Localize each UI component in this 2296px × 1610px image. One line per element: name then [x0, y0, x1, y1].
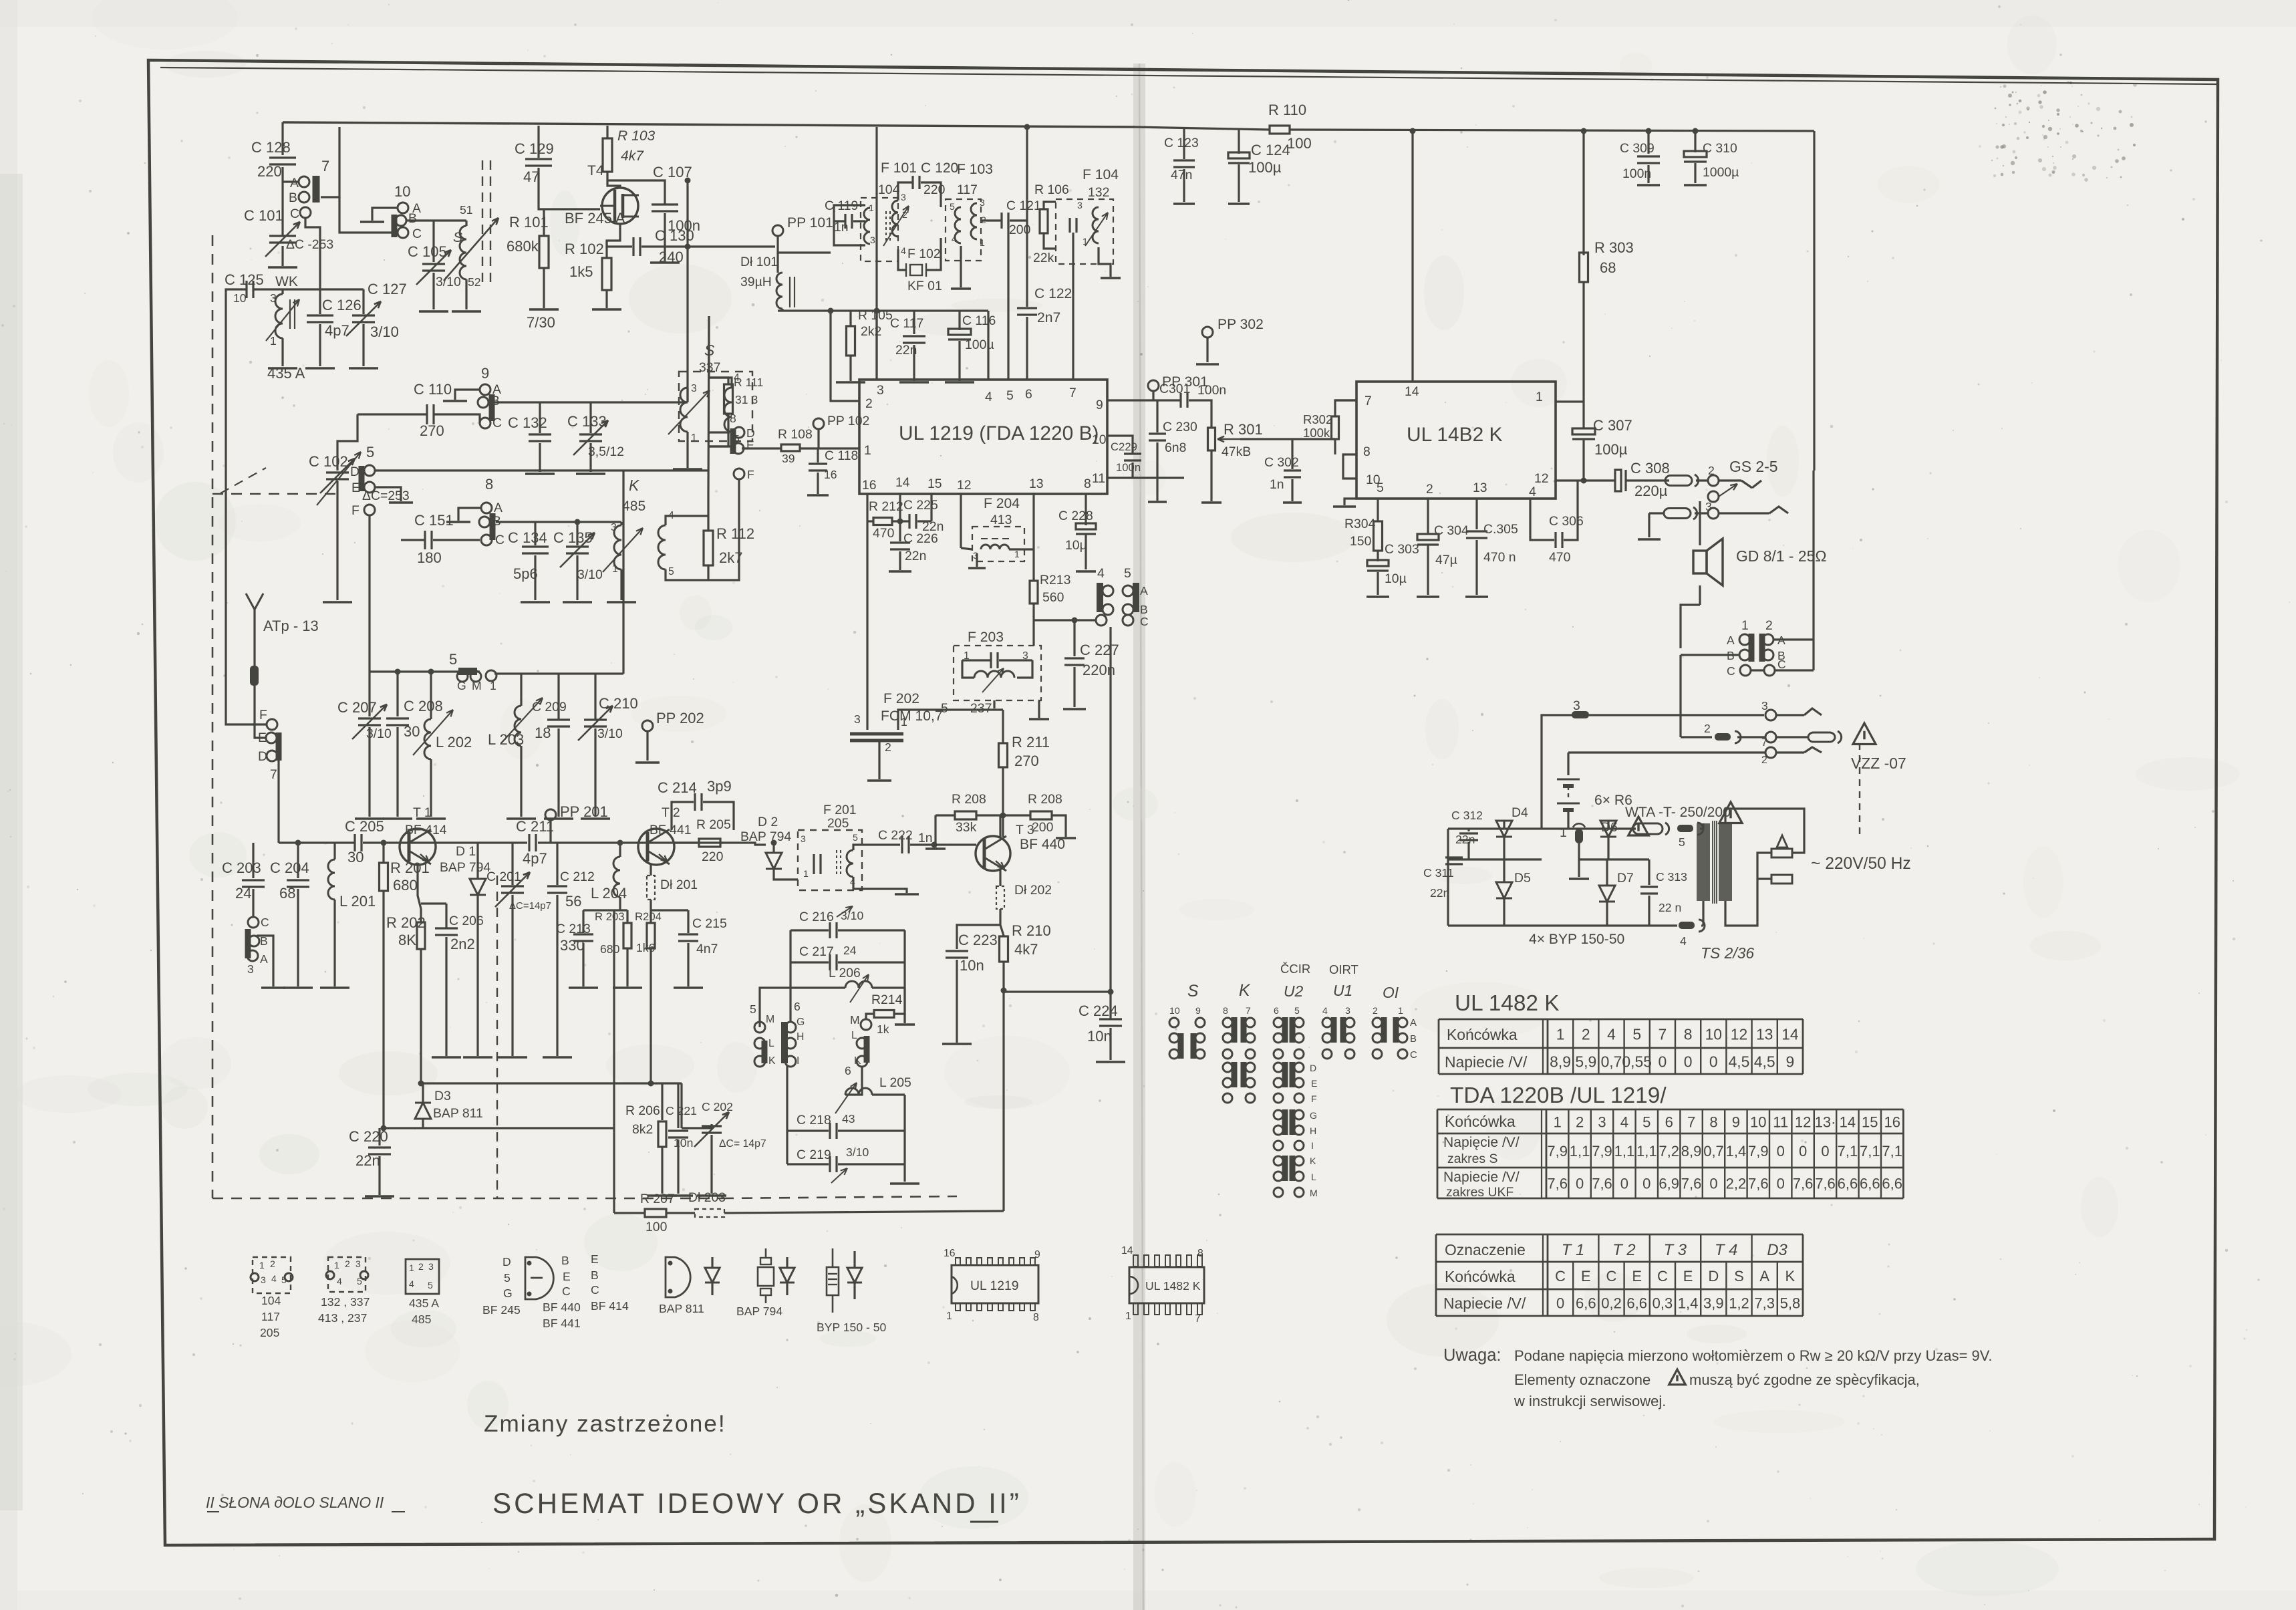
inductor inside F201	[847, 850, 853, 877]
capacitor C135 variable	[576, 522, 578, 545]
wire contact D to R112 node long	[375, 469, 709, 471]
svg-text:5: 5	[366, 444, 374, 460]
svg-text:5: 5	[853, 832, 858, 843]
svg-text:1: 1	[1560, 825, 1567, 840]
svg-text:3: 3	[801, 833, 806, 844]
svg-text:1: 1	[270, 334, 277, 348]
svg-text:3: 3	[870, 235, 875, 245]
capacitor C128	[269, 156, 296, 158]
svg-text:C 303: C 303	[1385, 542, 1419, 557]
svg-text:BYP 150 - 50: BYP 150 - 50	[817, 1321, 887, 1334]
svg-text:F: F	[351, 503, 360, 518]
ground stub left of UL1482K	[1344, 499, 1356, 505]
resistor R201	[382, 843, 384, 862]
wire cluster 9 B to C132 C133 row	[494, 401, 540, 403]
wire pin15 riser	[930, 494, 932, 521]
capacitor C132	[539, 402, 541, 433]
svg-text:4× BYP 150-50: 4× BYP 150-50	[1529, 932, 1624, 947]
wire pin2 to left	[831, 311, 859, 401]
svg-text:ΔC=14p7: ΔC=14p7	[509, 900, 551, 912]
svg-text:ΔC -253: ΔC -253	[286, 237, 333, 252]
test point PP302	[1202, 327, 1213, 338]
svg-text:BAP 794: BAP 794	[736, 1305, 782, 1318]
svg-text:1: 1	[869, 203, 874, 213]
svg-text:2: 2	[885, 741, 891, 754]
wire contact C down to C126 node	[305, 218, 320, 289]
svg-text:1,1: 1,1	[1570, 1143, 1590, 1160]
resistor R204	[647, 923, 655, 948]
svg-text:680: 680	[393, 877, 418, 894]
svg-text:1: 1	[946, 1311, 952, 1322]
row lower contact	[1568, 751, 1765, 753]
wire volume cluster down	[1109, 627, 1111, 835]
svg-text:22n: 22n	[1455, 833, 1475, 846]
svg-text:13: 13	[1029, 477, 1044, 491]
wire S337 secondary link down	[708, 316, 710, 378]
capacitor C107	[652, 203, 678, 205]
capacitor C121	[1000, 213, 1002, 229]
svg-text:2: 2	[1761, 755, 1767, 766]
svg-text:8: 8	[730, 412, 736, 425]
svg-text:M: M	[472, 679, 482, 692]
speaker GD8	[1693, 551, 1707, 573]
svg-text:8: 8	[1363, 444, 1371, 459]
wire pin6 riser with C122	[1026, 127, 1028, 307]
svg-text:C 208: C 208	[404, 698, 443, 714]
svg-text:C: C	[1410, 1049, 1417, 1061]
svg-text:5: 5	[1632, 1025, 1641, 1043]
svg-text:C 203: C 203	[222, 859, 261, 876]
svg-text:3: 3	[980, 197, 985, 208]
svg-text:T 3: T 3	[1664, 1241, 1687, 1259]
capacitor C105 variable	[432, 221, 434, 262]
filter F203 dashed box	[954, 646, 1041, 700]
svg-text:C 310: C 310	[1703, 141, 1737, 156]
test point PP201	[545, 809, 556, 820]
svg-text:1,1: 1,1	[1614, 1143, 1635, 1160]
svg-text:R 211: R 211	[1012, 734, 1050, 751]
svg-text:D: D	[1708, 1268, 1719, 1285]
svg-text:TDA 1220В /UL 1219/: TDA 1220В /UL 1219/	[1450, 1083, 1667, 1108]
svg-text:7,6: 7,6	[1793, 1176, 1814, 1192]
svg-text:C 309: C 309	[1620, 141, 1655, 156]
capacitor C215	[687, 910, 689, 933]
svg-text:9: 9	[1096, 398, 1103, 412]
svg-text:PP 202: PP 202	[656, 710, 704, 726]
svg-text:M: M	[1310, 1188, 1318, 1198]
svg-text:B: B	[591, 1268, 599, 1282]
svg-text:22n: 22n	[1430, 886, 1449, 900]
svg-text:5: 5	[428, 1280, 433, 1291]
svg-text:OIRT: OIRT	[1329, 962, 1358, 976]
svg-text:14: 14	[1781, 1025, 1799, 1043]
svg-text:117: 117	[957, 182, 978, 197]
mains plug prongs	[1777, 835, 1787, 847]
svg-text:220µ: 220µ	[1634, 483, 1668, 499]
wire C110 line	[357, 413, 426, 415]
svg-text:5: 5	[1679, 835, 1685, 849]
svg-text:C 227: C 227	[1080, 642, 1119, 658]
wire right bus corner down	[1813, 131, 1815, 471]
capacitor C203	[252, 843, 254, 878]
wire contact F down to VHF row	[368, 515, 370, 672]
test point PP301	[1148, 380, 1159, 391]
wire pin14 riser	[1411, 131, 1413, 382]
svg-text:3/10: 3/10	[846, 1146, 869, 1159]
svg-text:A: A	[290, 176, 299, 190]
svg-text:100µ: 100µ	[1594, 441, 1628, 458]
svg-text:PP 102: PP 102	[827, 414, 869, 428]
VHF input row	[370, 670, 460, 672]
svg-text:100: 100	[1287, 135, 1312, 152]
svg-text:C 210: C 210	[599, 695, 638, 712]
svg-text:8,9: 8,9	[1681, 1143, 1702, 1160]
resistor R214	[895, 988, 905, 1014]
svg-text:150: 150	[1350, 534, 1372, 549]
svg-text:A: A	[1140, 584, 1148, 597]
svg-text:C 217: C 217	[799, 944, 834, 959]
svg-text:2: 2	[1582, 1025, 1590, 1043]
capacitor C118	[817, 448, 819, 462]
svg-text:Końcówka: Końcówka	[1447, 1026, 1518, 1043]
svg-text:2: 2	[270, 1258, 275, 1269]
svg-text:5: 5	[281, 1274, 287, 1285]
svg-text:3: 3	[854, 712, 861, 726]
svg-text:4p7: 4p7	[325, 322, 349, 339]
wire pin8 riser C228	[1085, 494, 1087, 525]
svg-text:4: 4	[271, 1273, 277, 1284]
svg-text:R 208: R 208	[952, 792, 986, 807]
filter F101 dashed box	[861, 198, 898, 261]
svg-text:237: 237	[970, 701, 992, 716]
svg-text:R 112: R 112	[716, 525, 754, 542]
wire from B cluster down to switch row	[1679, 655, 1681, 737]
svg-text:F 104: F 104	[1083, 167, 1119, 182]
capacitor C308 electrolytic	[1615, 470, 1621, 491]
svg-text:0: 0	[1620, 1176, 1628, 1192]
svg-text:16: 16	[1884, 1114, 1900, 1131]
transformer TS 2/36 windings	[1697, 823, 1710, 901]
svg-text:C 312: C 312	[1451, 809, 1483, 822]
wire C128 chain vertical	[281, 122, 283, 155]
svg-text:S: S	[453, 230, 462, 245]
svg-text:0: 0	[1821, 1143, 1829, 1160]
svg-text:D7: D7	[1617, 871, 1634, 886]
svg-text:6: 6	[794, 1000, 801, 1013]
svg-text:E: E	[1311, 1078, 1317, 1089]
svg-text:12: 12	[957, 478, 972, 493]
svg-text:C 126: C 126	[322, 297, 362, 313]
svg-text:C 135: C 135	[553, 529, 593, 546]
svg-text:A: A	[260, 952, 268, 966]
svg-text:T 2: T 2	[1612, 1241, 1635, 1259]
svg-text:Dł 202: Dł 202	[1014, 883, 1052, 898]
svg-text:7: 7	[321, 158, 329, 174]
svg-text:C 122: C 122	[1034, 286, 1072, 301]
wire WK line	[235, 288, 247, 290]
svg-text:2: 2	[1576, 1114, 1584, 1131]
svg-text:Elementy oznaczone: Elementy oznaczone	[1514, 1371, 1651, 1388]
svg-text:6,6: 6,6	[1882, 1176, 1902, 1192]
svg-text:R214: R214	[871, 992, 903, 1007]
switch contact B A 3	[245, 929, 251, 958]
matrix block rows G H I	[1274, 1110, 1283, 1119]
svg-text:4: 4	[985, 390, 992, 404]
wire speaker to AB contact	[1681, 605, 1700, 648]
svg-text:C 202: C 202	[702, 1100, 733, 1113]
antenna ATp-13	[253, 610, 255, 628]
svg-text:1,1: 1,1	[1636, 1143, 1657, 1160]
resistor R212	[867, 520, 873, 522]
wire pin1 to R303 node	[1556, 400, 1584, 402]
svg-text:3: 3	[1077, 200, 1083, 211]
svg-text:T 1: T 1	[413, 805, 432, 820]
inductor S tuning coil	[465, 221, 467, 226]
svg-text:33k: 33k	[956, 820, 977, 835]
svg-text:C 209: C 209	[532, 700, 567, 714]
svg-text:C.305: C.305	[1483, 522, 1518, 537]
svg-text:D: D	[350, 464, 360, 479]
ladder C216 C217 between switch banks	[791, 929, 829, 931]
package pinout 104 117 205 dashed	[253, 1257, 291, 1293]
svg-text:C 213: C 213	[556, 922, 591, 936]
svg-text:220: 220	[702, 849, 724, 864]
svg-text:D: D	[1310, 1063, 1316, 1073]
wire VHF row right riser	[622, 471, 624, 674]
svg-text:C 220: C 220	[349, 1128, 388, 1145]
svg-text:8: 8	[1197, 1248, 1203, 1259]
svg-text:K: K	[1239, 982, 1251, 1000]
wire pin13 riser C305	[1475, 499, 1477, 529]
svg-text:~ 220V/50 Hz: ~ 220V/50 Hz	[1811, 855, 1911, 873]
svg-text:C 304: C 304	[1434, 523, 1469, 538]
svg-text:C301: C301	[1159, 382, 1190, 396]
resistor R105	[849, 311, 851, 326]
svg-text:R 212: R 212	[869, 499, 903, 514]
svg-text:14: 14	[1405, 384, 1419, 399]
inductor F204	[981, 545, 1009, 549]
svg-text:9: 9	[1034, 1249, 1040, 1260]
transistor T4 FET BF245A	[602, 188, 638, 224]
svg-text:C 128: C 128	[251, 139, 291, 156]
wire jack to speaker	[1699, 501, 1701, 545]
svg-text:D: D	[746, 426, 755, 440]
inductor K485 secondary	[658, 525, 666, 569]
svg-text:C: C	[261, 916, 269, 929]
svg-text:F: F	[1311, 1093, 1317, 1104]
svg-text:4k7: 4k7	[621, 148, 644, 164]
capacitor C222	[901, 836, 903, 853]
svg-text:4: 4	[1680, 934, 1687, 948]
svg-text:7/30: 7/30	[527, 314, 555, 331]
svg-text:2: 2	[1704, 722, 1711, 735]
svg-text:220: 220	[257, 163, 282, 180]
svg-text:C: C	[1140, 615, 1149, 628]
svg-text:F 203: F 203	[968, 630, 1004, 645]
test point PP202	[642, 720, 653, 731]
svg-text:PP 201: PP 201	[560, 803, 608, 820]
svg-text:3: 3	[1598, 1114, 1606, 1131]
svg-text:R 110: R 110	[1268, 102, 1306, 118]
IC U201 UL 1219 TDA 1220 B box	[859, 380, 1107, 494]
wire F contact down to R112 node	[708, 479, 739, 580]
svg-text:10: 10	[1705, 1025, 1722, 1043]
svg-text:BAP 811: BAP 811	[659, 1302, 704, 1315]
capacitor C309	[1647, 131, 1649, 154]
capacitor C210 variable	[594, 674, 596, 719]
svg-text:E: E	[1683, 1268, 1693, 1285]
svg-text:4: 4	[1529, 485, 1536, 499]
capacitor C228 electrolytic	[1076, 523, 1096, 529]
bead 4	[1679, 922, 1695, 929]
svg-text:104: 104	[878, 182, 900, 197]
svg-text:3p9: 3p9	[707, 778, 732, 795]
capacitor C223	[957, 925, 1000, 949]
svg-text:C 133: C 133	[567, 413, 607, 430]
svg-text:UL 1482 K: UL 1482 K	[1145, 1279, 1201, 1293]
svg-text:413: 413	[990, 513, 1012, 527]
svg-text:7: 7	[1246, 1005, 1251, 1016]
capacitor C207 variable	[368, 672, 370, 716]
border frame inner top double line	[160, 68, 2218, 84]
T3 collector riser	[999, 815, 1001, 837]
svg-text:R 208: R 208	[1028, 792, 1062, 807]
wire F103 bottom pin to riser	[960, 246, 962, 287]
svg-text:470 n: 470 n	[1483, 550, 1516, 565]
wire contact A of 9 to ground	[455, 390, 480, 400]
svg-text:PP 302: PP 302	[1217, 317, 1264, 332]
svg-text:14: 14	[1840, 1114, 1856, 1131]
resistor R108 on E line	[742, 447, 781, 449]
svg-text:4: 4	[1620, 1114, 1628, 1131]
svg-text:6,6: 6,6	[1626, 1295, 1647, 1312]
svg-text:ΔC=253: ΔC=253	[362, 489, 410, 503]
capacitor C225	[908, 514, 910, 529]
svg-text:10µ: 10µ	[1065, 538, 1087, 553]
svg-text:3: 3	[428, 1261, 434, 1272]
resistor R304	[1374, 521, 1383, 551]
capacitor C306	[1554, 532, 1556, 548]
wire to volume contact row	[1034, 619, 1096, 621]
svg-text:1: 1	[1554, 1114, 1562, 1131]
svg-text:C 223: C 223	[958, 932, 998, 948]
svg-text:14: 14	[1121, 1245, 1133, 1256]
svg-text:C: C	[1777, 658, 1786, 671]
wire R208 left riser	[934, 815, 936, 847]
svg-text:7: 7	[1687, 1114, 1695, 1131]
svg-text:3/10: 3/10	[370, 323, 399, 340]
wire right riser from bus corner	[1812, 471, 1814, 670]
svg-text:BF 441: BF 441	[543, 1317, 581, 1330]
svg-text:1: 1	[1536, 390, 1543, 404]
svg-text:3/10: 3/10	[597, 726, 623, 741]
capacitor C220	[378, 1128, 380, 1146]
svg-text:B: B	[1410, 1033, 1417, 1045]
svg-text:5,8: 5,8	[1780, 1295, 1801, 1312]
svg-text:3: 3	[1761, 699, 1768, 712]
svg-text:G: G	[797, 1017, 805, 1028]
svg-text:22n: 22n	[905, 549, 926, 563]
svg-text:D: D	[503, 1255, 511, 1268]
vertical bus riser at x1312	[875, 127, 877, 380]
svg-text:15: 15	[927, 477, 942, 491]
svg-text:8: 8	[1033, 1312, 1039, 1323]
capacitor C130	[632, 237, 634, 256]
svg-text:L: L	[1311, 1172, 1316, 1182]
svg-text:C 121: C 121	[1006, 198, 1041, 213]
svg-text:7,6: 7,6	[1815, 1176, 1836, 1192]
svg-text:5: 5	[950, 201, 955, 212]
svg-text:I: I	[1311, 1140, 1314, 1151]
wire contact A of 8 to ground	[458, 508, 481, 521]
wire pin9 to C301	[1107, 399, 1180, 401]
svg-text:18: 18	[535, 724, 551, 741]
svg-text:16: 16	[944, 1248, 956, 1259]
svg-text:104: 104	[261, 1294, 281, 1307]
svg-text:8k2: 8k2	[632, 1122, 653, 1137]
svg-text:BAP 794: BAP 794	[440, 860, 490, 875]
svg-text:3: 3	[247, 962, 254, 976]
svg-text:R 101: R 101	[509, 214, 549, 231]
svg-text:Dł 201: Dł 201	[660, 878, 698, 892]
svg-text:Napiecie /V/: Napiecie /V/	[1443, 1295, 1526, 1312]
svg-text:3/10: 3/10	[841, 909, 863, 922]
voltage table TDA1220B	[1437, 1109, 1903, 1111]
svg-text:C 222: C 222	[878, 828, 913, 843]
svg-text:4: 4	[409, 1279, 414, 1289]
svg-text:C 226: C 226	[903, 531, 938, 546]
svg-text:1k6: 1k6	[636, 941, 656, 954]
svg-text:1: 1	[1741, 618, 1749, 633]
svg-text:4,5: 4,5	[1729, 1053, 1750, 1070]
svg-text:0: 0	[1777, 1143, 1785, 1160]
svg-text:C 225: C 225	[903, 498, 938, 513]
svg-text:6,6: 6,6	[1860, 1176, 1880, 1192]
svg-text:9: 9	[1195, 1005, 1201, 1016]
second contact	[1708, 491, 1719, 502]
package BAP794	[760, 1258, 771, 1264]
svg-text:100k: 100k	[1303, 426, 1330, 440]
svg-text:R 102: R 102	[565, 241, 604, 257]
svg-text:6: 6	[845, 1064, 851, 1077]
svg-text:13: 13	[1473, 481, 1487, 495]
svg-text:BF 245: BF 245	[482, 1303, 521, 1317]
svg-text:13: 13	[1756, 1025, 1773, 1043]
svg-text:2: 2	[1426, 482, 1433, 497]
svg-text:1: 1	[259, 1260, 265, 1270]
svg-text:BF 441: BF 441	[650, 823, 692, 837]
choke Dl201 dashed	[647, 876, 655, 900]
inductor L205	[845, 1066, 862, 1095]
svg-text:D: D	[258, 749, 267, 764]
wire F104 to ground	[1099, 247, 1111, 277]
svg-text:1: 1	[1398, 1005, 1403, 1016]
svg-text:C 134: C 134	[508, 529, 547, 546]
svg-text:muszą być zgodne ze spècyfikac: muszą być zgodne ze spècyfikacja,	[1689, 1371, 1920, 1388]
svg-text:F 202: F 202	[883, 691, 919, 706]
wire C101 down to WK line	[281, 246, 283, 266]
svg-text:7,1: 7,1	[1882, 1143, 1902, 1160]
IC U301 UL 1482 K box	[1356, 382, 1556, 499]
resistor R110 on bus	[1135, 127, 1269, 130]
svg-text:R 201: R 201	[390, 859, 430, 876]
svg-text:E: E	[746, 438, 754, 452]
svg-text:UL 14В2 K: UL 14В2 K	[1407, 424, 1503, 446]
svg-text:0: 0	[1709, 1176, 1717, 1192]
wire F202 pin1 to R211	[898, 710, 1003, 730]
dashed gang line horizontal	[212, 493, 337, 495]
capacitor C229	[1124, 452, 1141, 454]
